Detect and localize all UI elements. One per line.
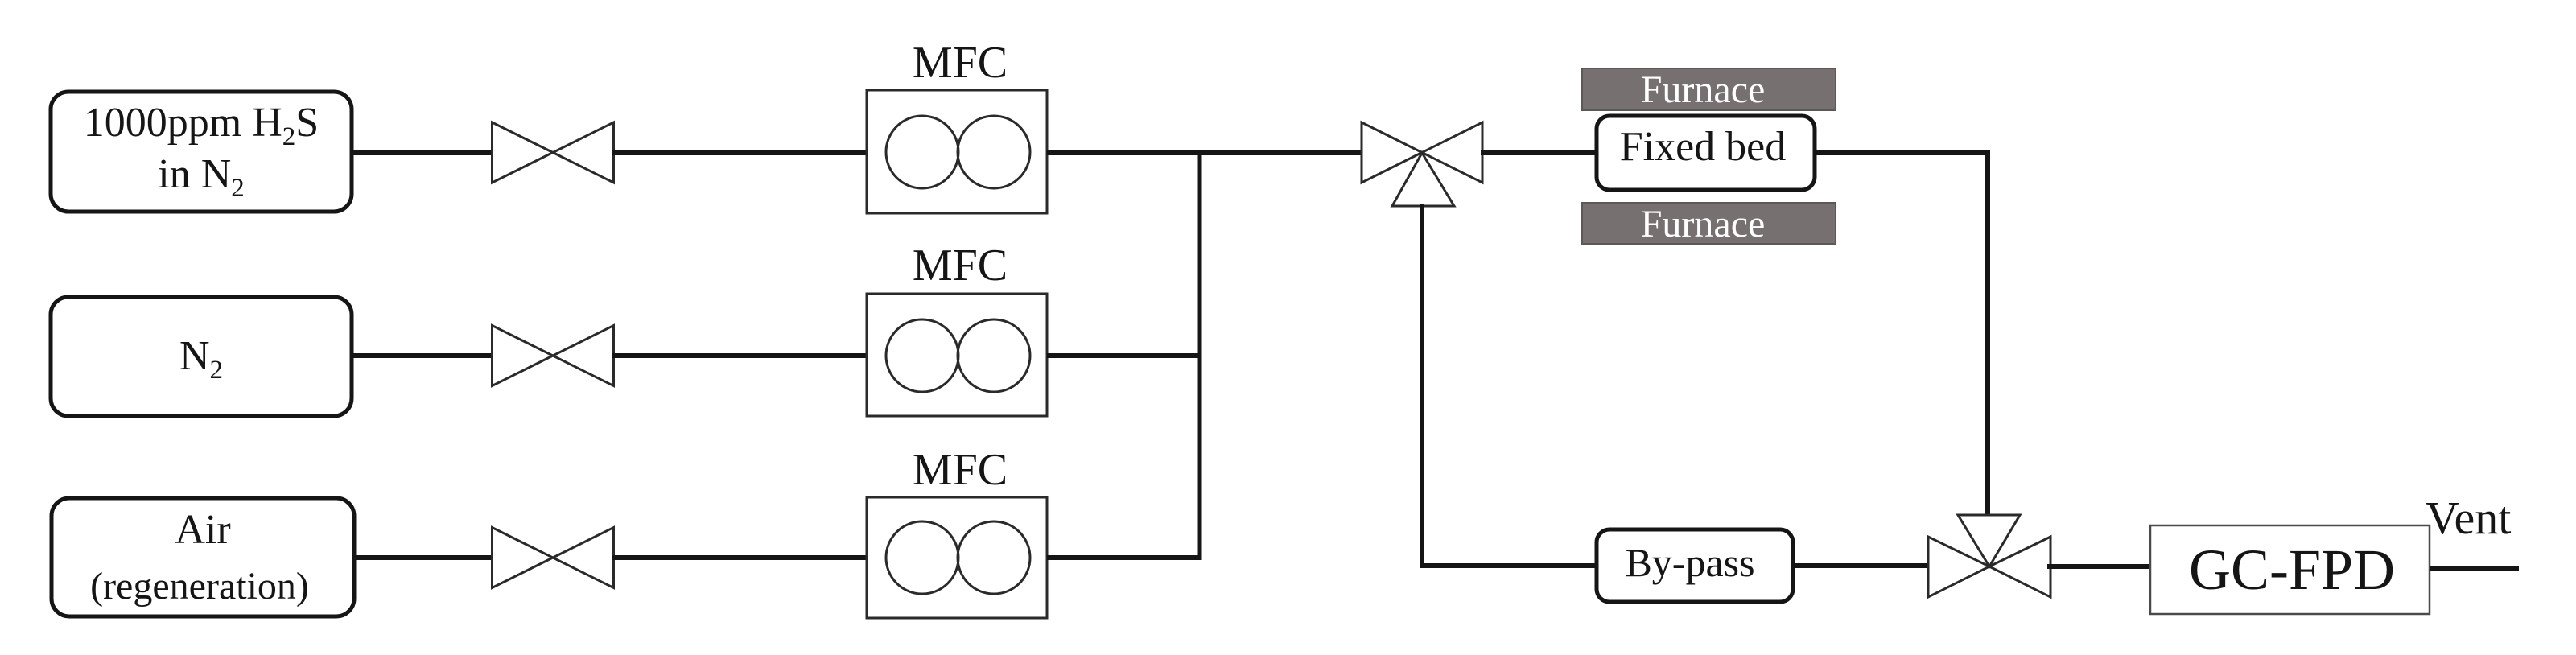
valve V1 [493, 122, 614, 183]
source box 1000ppm H2S in N2 [51, 92, 352, 212]
wire valve V5 to GC-FPD [2047, 564, 2152, 569]
svg-text:Fixed bed: Fixed bed [1620, 124, 1787, 170]
detector GC-FPD [2150, 525, 2430, 614]
3-way valve V4 [1362, 122, 1482, 206]
wire Air box to valve V3 [352, 555, 495, 560]
valve V2 [493, 326, 614, 386]
MFC2 mass flow controller [867, 294, 1047, 416]
wire valve V1 to MFC1 [612, 150, 868, 155]
wire MFC1 to 3-way valve V4 [1047, 150, 1364, 155]
wire MFC3 to trunk node [1047, 555, 1202, 560]
furnace bar top [1582, 68, 1836, 111]
wire H2S box to valve V1 [350, 150, 495, 155]
wire GC-FPD to Vent [2430, 566, 2519, 571]
wire valve V3 to MFC3 [612, 555, 868, 560]
wire N2 box to valve V2 [350, 353, 495, 358]
reactor Fixed bed [1597, 116, 1815, 190]
3-way valve V5 [1928, 515, 2050, 597]
svg-text:(regeneration): (regeneration) [90, 565, 309, 608]
svg-text:MFC: MFC [913, 38, 1008, 88]
wire V4 to Fixed bed [1481, 150, 1598, 155]
MFC3 mass flow controller [867, 497, 1047, 618]
svg-text:MFC: MFC [913, 445, 1008, 495]
svg-text:Furnace: Furnace [1641, 203, 1766, 245]
svg-text:MFC: MFC [913, 241, 1008, 290]
wire Fixed bed to corner [1813, 150, 1990, 155]
source box N2 [51, 297, 352, 416]
trunk manifold wire [1198, 153, 1202, 558]
svg-text:GC-FPD: GC-FPD [2189, 538, 2395, 602]
MFC1 mass flow controller [867, 90, 1047, 213]
wire By-pass to valve V5 [1793, 563, 1931, 568]
valve V3 [493, 528, 614, 588]
bypass box [1597, 529, 1793, 602]
wire V4 to By-pass [1420, 563, 1598, 568]
svg-text:Vent: Vent [2426, 492, 2511, 544]
source box Air (regeneration) [52, 498, 354, 616]
svg-text:Furnace: Furnace [1641, 68, 1766, 111]
furnace bar bottom [1582, 203, 1836, 245]
svg-text:Air: Air [175, 507, 230, 553]
wire valve V2 to MFC2 [612, 353, 868, 358]
wire corner down to valve V5 [1985, 150, 1990, 516]
wire V4 branch down [1420, 204, 1424, 568]
wire MFC2 to trunk node [1047, 353, 1202, 358]
svg-text:By-pass: By-pass [1625, 540, 1754, 585]
